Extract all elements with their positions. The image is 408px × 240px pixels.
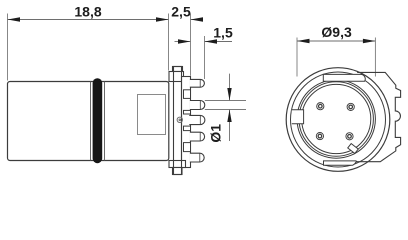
extension line 2,5 / 1,5 (190, 14, 192, 76)
o-ring (93, 78, 103, 163)
flange notch block A (184, 90, 191, 99)
screw detail (177, 117, 182, 122)
dimension 18,8 (8, 3, 169, 21)
insert bottom tab (324, 161, 357, 165)
keyway notch (292, 110, 304, 124)
connector body (8, 82, 169, 161)
flange plate (182, 77, 191, 168)
front insert circle (302, 84, 371, 153)
pin 4 side (190, 132, 205, 141)
svg-text:1,5: 1,5 (213, 25, 233, 41)
pin 1 side (190, 79, 205, 87)
svg-text:Ø1: Ø1 (208, 124, 224, 143)
flange top small tab (173, 67, 183, 72)
nut right profile (357, 72, 401, 161)
flange column (174, 67, 182, 175)
flange notch block B (184, 110, 191, 114)
pin 2 side (190, 101, 205, 110)
extension line left of 18,8 (7, 14, 9, 81)
pin 3 side (189, 115, 205, 124)
dimension 2,5 (171, 4, 203, 22)
flange top wide tab (169, 72, 184, 82)
svg-text:2,5: 2,5 (171, 4, 191, 20)
svg-text:Ø9,3: Ø9,3 (321, 24, 352, 40)
pin D front (346, 133, 353, 140)
keying tab (348, 144, 359, 154)
front outer circle (286, 68, 390, 172)
dimension Ø1 (205, 74, 246, 143)
dimension 1,5 (175, 25, 233, 44)
extension line shared 18,8 / 2,5 (168, 14, 170, 71)
svg-text:18,8: 18,8 (74, 3, 101, 19)
dimension Ø9,3 (297, 24, 376, 76)
flange bottom small tab (173, 168, 183, 175)
flange notch block D (184, 143, 191, 152)
insert top tab (323, 74, 365, 81)
pin A front (317, 103, 324, 110)
pin C front (316, 133, 323, 140)
body recess detail (138, 95, 166, 135)
extension line 1,5 right (204, 36, 206, 79)
flange bottom wide tab (169, 161, 186, 168)
front second circle (291, 72, 386, 167)
flange notch block C (184, 126, 191, 131)
pin 5 side (190, 153, 204, 162)
front circle d9.3 (297, 80, 375, 158)
pin B front (347, 103, 354, 110)
front circle mid (299, 82, 373, 156)
o-ring groove lines (91, 82, 105, 161)
